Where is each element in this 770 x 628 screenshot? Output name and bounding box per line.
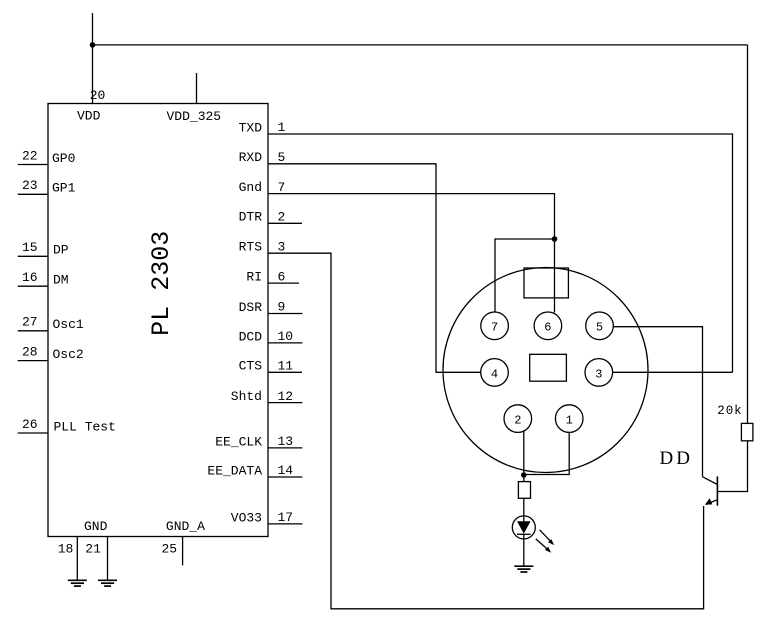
svg-text:GP1: GP1 [52,181,76,196]
LED cathode bar [517,533,531,535]
pin 28 Osc2 stub [18,360,48,362]
svg-text:10: 10 [278,329,294,344]
svg-text:GP0: GP0 [52,151,75,166]
pin 1 TXD stub and wire to DIN pin3 net [268,134,733,372]
svg-text:DD: DD [660,448,693,469]
connector DIN outer circle [443,268,648,473]
LED light arrow 1 [540,530,555,545]
svg-text:4: 4 [491,367,498,381]
svg-text:9: 9 [278,300,286,315]
DIN pin 2 circle [504,405,532,433]
junction LED node [521,472,527,478]
svg-text:18: 18 [58,542,74,557]
svg-text:VDD_325: VDD_325 [167,109,222,124]
wire DIN pin5 to transistor collector [613,327,702,477]
svg-text:VDD: VDD [77,108,101,123]
svg-text:Shtd: Shtd [231,389,262,404]
svg-text:14: 14 [278,463,294,478]
pin 3 RTS wire to transistor emitter net [268,253,704,609]
pin 6 RI stub [268,282,299,284]
LED wire through [523,516,525,521]
junction Gnd branch node [552,236,558,242]
wire resistor to LED [523,498,525,516]
svg-text:2: 2 [514,414,521,428]
pin 12 Shtd stub [268,402,302,404]
wire junction to resistor [523,475,525,482]
DIN pin 5 circle [586,312,614,340]
svg-text:CTS: CTS [239,359,263,374]
svg-text:DTR: DTR [239,210,263,225]
pin 9 DSR stub [268,313,302,315]
ground symbol at pin 18 [68,580,87,586]
DIN pin 1 circle [555,405,583,433]
pin 17 VO33 stub [268,523,302,525]
wire resistor 20k to transistor base [717,441,747,492]
svg-text:DM: DM [53,273,69,288]
svg-text:DSR: DSR [239,300,263,315]
svg-text:27: 27 [22,315,38,330]
pin 23 GP1 stub [18,193,48,195]
junction VDD node [90,42,96,48]
svg-text:6: 6 [278,269,286,284]
connector center rectangle [530,354,567,381]
wire Gnd branch to DIN pin7 [495,239,555,312]
svg-text:2: 2 [278,210,286,225]
svg-text:22: 22 [22,148,38,163]
wire VDD right vertical to resistor [747,45,749,424]
svg-text:17: 17 [278,510,294,525]
svg-text:EE_CLK: EE_CLK [215,434,262,449]
pin 16 DM stub [18,285,48,287]
svg-text:RTS: RTS [239,240,263,255]
transistor DD emitter diagonal [706,500,717,505]
svg-text:Osc1: Osc1 [53,317,84,332]
svg-text:RI: RI [246,270,262,285]
svg-text:Osc2: Osc2 [53,347,84,362]
pin 18 stub [76,537,78,581]
pin 7 Gnd wire to DIN pin6 [268,194,555,313]
svg-text:GND_A: GND_A [166,519,205,534]
svg-text:7: 7 [278,180,286,195]
pin 26 PLL Test stub [18,432,48,434]
svg-text:20k: 20k [717,404,742,418]
pin 21 stub [107,537,109,581]
svg-text:3: 3 [595,367,602,381]
svg-text:EE_DATA: EE_DATA [207,463,262,478]
svg-text:15: 15 [22,240,38,255]
svg-text:1: 1 [278,120,286,135]
DIN pin 3 circle [585,359,613,387]
LED triangle [517,521,531,533]
resistor 20k body [741,423,753,440]
svg-text:Gnd: Gnd [239,180,262,195]
svg-text:TXD: TXD [239,120,263,135]
svg-text:DP: DP [53,243,69,258]
svg-text:25: 25 [162,542,178,557]
svg-text:5: 5 [596,321,603,335]
svg-text:12: 12 [278,389,294,404]
transistor DD collector diagonal [703,477,718,485]
LED circle [512,516,535,539]
svg-text:21: 21 [85,542,101,557]
chip U1 PL2303 body [48,104,268,537]
wire DIN pin3 to TXD net [613,371,733,373]
pin 27 Osc1 stub [18,330,48,332]
svg-text:GND: GND [84,519,108,534]
pin VDD_325 stub [196,73,198,104]
resistor R LED series [518,482,530,499]
svg-text:PL 2303: PL 2303 [147,231,176,336]
connector key notch rectangle [524,268,568,298]
pin 5 RXD wire to DIN pin4 [268,164,481,372]
wire VDD supply vertical (to pin 20) [92,13,94,104]
svg-text:28: 28 [22,344,38,359]
svg-text:DCD: DCD [239,329,263,344]
transistor DD emitter arrowhead [705,498,712,505]
svg-text:6: 6 [544,321,551,335]
wire DIN pin1 down to LED node [524,432,569,474]
svg-text:PLL Test: PLL Test [54,419,116,434]
pin 2 DTR stub [268,222,302,224]
transistor DD base bar [716,476,718,505]
svg-text:1: 1 [566,414,573,428]
svg-text:20: 20 [90,88,106,103]
pin 22 GP0 stub [18,164,48,166]
pin 13 EE_CLK stub [268,447,302,449]
DIN pin 6 circle [534,312,562,340]
pin 15 DP stub [18,255,48,257]
pin 14 EE_DATA stub [268,476,302,478]
ground symbol at pin 21 [98,580,117,586]
pin 11 CTS stub [268,371,302,373]
svg-text:26: 26 [22,417,38,432]
svg-text:16: 16 [22,270,38,285]
svg-text:11: 11 [278,359,294,374]
svg-text:7: 7 [491,321,498,335]
wire DIN pin2 down to LED node [523,431,525,475]
svg-text:5: 5 [278,150,286,165]
svg-text:3: 3 [278,239,286,254]
svg-text:VO33: VO33 [231,510,262,525]
DIN pin 4 circle [481,359,509,387]
wire VDD top horizontal [93,44,748,46]
svg-text:23: 23 [22,178,38,193]
pin 10 DCD stub [268,342,302,344]
svg-text:13: 13 [278,434,294,449]
svg-text:RXD: RXD [239,150,263,165]
wire LED to ground [523,534,525,566]
LED light arrow 2 [536,539,551,553]
ground symbol below LED [514,566,533,572]
pin 25 GND_A stub [182,537,184,566]
DIN pin 7 circle [481,312,509,340]
